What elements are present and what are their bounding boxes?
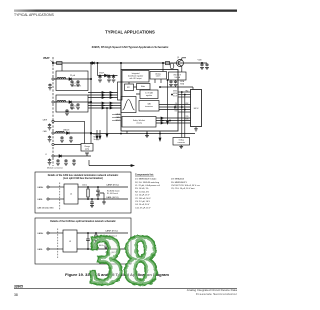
diode D1 (69, 78, 72, 81)
node CANH (37, 186, 44, 189)
terminal CANH (47, 186, 49, 188)
wire MCU spi 1 (178, 91, 191, 93)
wire VBAT rail (53, 62, 207, 64)
capacitor C20 (90, 199, 94, 206)
ground (48, 140, 52, 142)
capacitor C2 left of connector (48, 84, 51, 87)
wire block links (129, 79, 161, 94)
wire CAN bus 3 (88, 107, 121, 109)
inductor L3 (56, 132, 65, 133)
wire to split cap (96, 240, 106, 242)
block mode (137, 84, 151, 90)
charge pump box (81, 144, 93, 152)
watermark page number (89, 223, 159, 300)
connector pin 4 (52, 132, 54, 134)
node CANH (37, 232, 44, 235)
MCU block (191, 90, 202, 127)
svg-text:CANH: CANH (37, 186, 44, 189)
svg-text:C2: 100 nF, 50 V: C2: 100 nF, 50 V (135, 198, 151, 200)
junction dots near MCU (169, 91, 185, 121)
svg-text:L1: 22 µH, 4.0 A power coil: L1: 22 µH, 4.0 A power coil (135, 184, 160, 187)
wire supply bus (90, 63, 92, 144)
pin label (42, 118, 47, 121)
svg-text:Components list:: Components list: (135, 174, 154, 177)
wire choke to ECU CANL (78, 198, 128, 200)
box supply filter 1 (56, 71, 88, 91)
svg-text:120 Ω: 120 Ω (82, 185, 87, 187)
diode D2 (69, 101, 72, 104)
capacitor C8 (64, 159, 67, 162)
running header bar (14, 10, 237, 12)
svg-text:C11: 47 µF, 16 V: C11: 47 µF, 16 V (135, 207, 151, 209)
ground stub (146, 134, 148, 136)
note RL term (107, 191, 120, 195)
svg-text:MOSI: MOSI (173, 93, 177, 95)
wire CANH to choke (49, 186, 64, 188)
split resistor R4 (95, 235, 97, 241)
shunt resistor (170, 63, 174, 69)
capacitor C1b (70, 80, 73, 83)
svg-text:Details of the CAN bus standar: Details of the CAN bus standard terminat… (48, 174, 119, 177)
ground (48, 128, 52, 130)
wire base (174, 62, 176, 64)
pin labels SPI (173, 90, 178, 112)
ECU boundary dashed (59, 183, 61, 211)
ground (48, 163, 52, 165)
wire mid node (98, 193, 104, 202)
wire IC ground drops (127, 131, 160, 134)
svg-text:D3: MRA4003: D3: MRA4003 (171, 178, 185, 181)
node VSUP (99, 73, 105, 75)
value 1N4148 (63, 130, 69, 132)
wire VSUP branch (98, 63, 118, 76)
node CAN shield GND (37, 207, 54, 210)
debug connector box (173, 138, 190, 146)
node VBAT (43, 57, 53, 62)
svg-text:MBRS340T3: MBRS340T3 (72, 86, 81, 88)
connector pin 1 (52, 78, 54, 80)
sense resistor (166, 62, 170, 65)
fuse F1 on rail (57, 62, 63, 65)
common-mode choke L4 (64, 184, 78, 204)
svg-text:connector: connector (177, 141, 185, 144)
pin label (45, 154, 47, 156)
node CANH ECU (105, 230, 118, 233)
junction dots (87, 232, 88, 249)
block SPI (125, 84, 134, 91)
svg-text:C9, C10: 10 µF, 16 V tant.: C9, C10: 10 µF, 16 V tant. (171, 187, 195, 190)
ground (65, 113, 69, 115)
ground (112, 80, 116, 82)
svg-text:with LDO output: with LDO output (129, 77, 142, 80)
wire CANL to choke (49, 198, 64, 200)
wire MCU rxd (156, 120, 191, 122)
wire CAN stub to detail (89, 160, 131, 166)
terminal CANL (47, 198, 49, 200)
arrows to MCU (161, 117, 163, 119)
ground (180, 145, 182, 147)
block CAN transceiver (139, 101, 159, 112)
svg-text:22 µH: 22 µH (70, 75, 76, 77)
capacitor C19 left of connector (48, 159, 51, 162)
svg-text:C3: 2.2 µF, 16 V: C3: 2.2 µF, 16 V (135, 201, 151, 203)
capacitor C13 (104, 241, 107, 244)
block regulator (122, 71, 149, 83)
svg-text:VDD 5.0 V: VDD 5.0 V (173, 74, 181, 76)
junction dots (95, 232, 96, 249)
pin header block (118, 82, 123, 100)
block switch (150, 72, 167, 80)
wire MCU io 1 (159, 104, 191, 106)
svg-text:1N4148: 1N4148 (63, 130, 69, 132)
resistor R3 120 ohm (87, 189, 89, 197)
value VSUP2 (70, 106, 77, 111)
svg-text:VDD: VDD (198, 60, 203, 62)
capacitor C9 (72, 159, 75, 162)
node CANL ECU (105, 251, 118, 254)
svg-text:D2 C3 C4: D2 C3 C4 (70, 106, 77, 108)
svg-text:R1: 10 kΩ, 1%: R1: 10 kΩ, 1% (135, 188, 149, 190)
capacitor C14 (98, 76, 101, 79)
connector pin 2 (52, 101, 54, 103)
svg-text:(non split CAN bus line termin: (non split CAN bus line termination) (63, 177, 103, 180)
ground (70, 84, 74, 86)
wire pin2 (54, 101, 91, 103)
svg-text:CANL: CANL (37, 248, 44, 251)
note split (106, 236, 117, 238)
ground (56, 163, 60, 165)
decoupling caps above MCU (169, 80, 172, 83)
svg-text:D1 C1 C2: D1 C1 C2 (72, 83, 79, 85)
detail box A frame (35, 172, 131, 213)
node VDD (198, 60, 203, 62)
svg-text:VSUP: VSUP (99, 73, 105, 75)
wire SPI bus 1 (88, 92, 118, 94)
capacitor C21 (86, 233, 90, 249)
module connector label (47, 167, 63, 170)
capacitor C15 (107, 76, 110, 79)
inductor L1 (57, 78, 66, 79)
svg-text:MCU: MCU (194, 108, 199, 110)
svg-text:38: 38 (89, 223, 159, 300)
block CAN 5V regulator (140, 90, 158, 99)
transistor Q1 label (177, 57, 179, 59)
terminal CANL (47, 248, 49, 250)
wire debug drop 1 (181, 92, 183, 138)
wire pin1 to box (54, 78, 91, 80)
ground (98, 80, 102, 82)
ground (76, 107, 80, 109)
wire collector up (182, 58, 186, 72)
diode D4 (67, 132, 70, 135)
junction dots bus (90, 78, 91, 134)
connector pin 3 (52, 120, 54, 122)
value VSUP1 (72, 83, 81, 88)
capacitor C16 (112, 76, 115, 79)
svg-text:SCLK: SCLK (173, 95, 177, 97)
node CANL ECU (106, 196, 119, 199)
svg-text:C5/C6/C7/C8: 100 nF, 50 V cer.: C5/C6/C7/C8: 100 nF, 50 V cer. (171, 184, 201, 187)
wire debug drop 2 (184, 95, 186, 138)
diode D6 (105, 74, 108, 77)
svg-text:CANH (ECU): CANH (ECU) (106, 184, 119, 187)
svg-text:CAN (Shield) GND: CAN (Shield) GND (37, 207, 54, 210)
node CANL (37, 198, 44, 201)
svg-text:C4: 10 nF, 50 V: C4: 10 nF, 50 V (135, 204, 150, 206)
capacitor C18 left of connector (48, 136, 51, 139)
capacitor C6 (69, 136, 72, 139)
capacitor C1 (76, 80, 79, 83)
wire pin6 (54, 155, 91, 157)
svg-text:Supply: Supply (94, 139, 100, 141)
wire CANL to choke (49, 248, 63, 250)
capacitor C13 (96, 193, 100, 199)
ground (69, 140, 73, 142)
connector pin 6 (52, 155, 54, 157)
ground rail (91, 133, 195, 135)
capacitor C3 (76, 103, 79, 106)
terminal CANH (47, 232, 49, 234)
arrows CAN bus (102, 102, 104, 104)
svg-text:pump: pump (85, 148, 89, 150)
wire choke to ECU CANH (77, 232, 128, 234)
wire MCU spi 2 (178, 94, 191, 96)
ground (205, 68, 209, 70)
ground (90, 206, 94, 208)
ground (104, 247, 108, 249)
wire pin5 (54, 144, 81, 146)
capacitor C17 left of connector (48, 124, 51, 127)
svg-text:RL, 60 Ω each: RL, 60 Ω each (107, 193, 118, 195)
wire MCU io 4 (178, 111, 191, 113)
pin labels MCU side (186, 89, 190, 120)
pin labels CANH CANL (115, 113, 120, 122)
IC 33905 outline (121, 70, 178, 132)
ground (48, 88, 52, 90)
svg-text:Module connector: Module connector (47, 167, 63, 170)
svg-text:CANL (ECU): CANL (ECU) (106, 196, 119, 199)
svg-text:IO0: IO0 (175, 110, 178, 112)
junction dots (87, 186, 98, 199)
wire MCU io 2 (159, 106, 191, 108)
junction dots VSUP (97, 62, 114, 76)
diode D5 (59, 155, 62, 158)
wire CAN bus 1 (88, 102, 121, 104)
wire MCU io 3 (159, 109, 191, 111)
capacitor C9 (200, 63, 203, 66)
svg-text:D5: MBRS340T3: D5: MBRS340T3 (171, 182, 188, 184)
svg-text:33905, D5 High Speed CAN Typic: 33905, D5 High Speed CAN Typical Applica… (92, 45, 169, 49)
node CANH ECU (106, 184, 119, 187)
transistor Q1 (177, 60, 184, 67)
capacitor C4 (65, 109, 68, 112)
wire MCU txd (156, 117, 191, 119)
wire SPI bus 3 (88, 97, 118, 99)
wire pin4 (54, 132, 91, 134)
svg-text:TYPICAL APPLICATIONS: TYPICAL APPLICATIONS (14, 13, 54, 17)
svg-text:C1: 10 µF, 25 V: C1: 10 µF, 25 V (135, 195, 150, 197)
ground (107, 80, 111, 82)
node CANL (37, 248, 44, 251)
wire sense drop (106, 108, 108, 134)
wire pin3 long (54, 121, 84, 143)
svg-text:33905: 33905 (14, 284, 23, 288)
ground (102, 202, 106, 204)
svg-text:CANH: CANH (37, 232, 44, 235)
wire internal supply drop (167, 80, 169, 121)
wire rail drop to IC (121, 63, 163, 72)
ground (200, 68, 204, 70)
junction on VBAT rail (52, 62, 202, 63)
svg-text:Mode: Mode (141, 86, 145, 88)
wire connector boundary (dashed) (52, 57, 54, 166)
box supply filter 2 (56, 95, 88, 112)
junction dots ground rail (120, 133, 160, 134)
block output filter (169, 72, 187, 80)
node External Module Supply (94, 133, 102, 141)
svg-text:D2, D4: 1N4148 switching: D2, D4: 1N4148 switching (135, 181, 160, 184)
svg-text:Freescale Semiconductor: Freescale Semiconductor (196, 292, 237, 296)
wire MCU int (156, 122, 191, 124)
ECU boundary dashed (57, 229, 59, 259)
arrows SPI bus (102, 92, 104, 94)
capacitor C7 (56, 159, 59, 162)
ground (64, 163, 68, 165)
svg-text:D1: MBRS340T3 diode: D1: MBRS340T3 diode (135, 179, 157, 181)
capacitor C12 (96, 187, 100, 193)
capacitor C10 (205, 63, 208, 66)
page background (0, 0, 240, 310)
block wave shaper (121, 97, 136, 113)
wire VDD to MCU (160, 87, 193, 90)
split resistor R5 (95, 242, 97, 248)
svg-text:100 nF: 100 nF (70, 108, 75, 110)
capacitor C5 (60, 136, 63, 139)
wire CAN bus 2 (88, 105, 121, 107)
wire rail into filter (61, 64, 63, 71)
ground (72, 163, 76, 165)
ground (60, 140, 64, 142)
detail box B frame (35, 218, 131, 264)
inductor L2 (57, 101, 66, 102)
diode D3 on rail (92, 62, 95, 65)
wire SPI bus 2 (88, 94, 118, 96)
arrow down (159, 134, 161, 139)
wire choke to ECU CANL (77, 248, 128, 250)
capacitor C3b (70, 103, 73, 106)
ground (70, 107, 74, 109)
svg-text:CANL: CANL (37, 198, 44, 201)
pin label (43, 130, 47, 133)
block fail-safe (122, 117, 156, 128)
wire choke to ECU CANH (78, 186, 128, 188)
svg-text:VBAT: VBAT (43, 57, 50, 60)
svg-text:R2: 1.0 kΩ, 5%: R2: 1.0 kΩ, 5% (135, 191, 149, 193)
value 22uH (70, 75, 76, 77)
ground MCU (195, 127, 197, 129)
wire MCU spi 3 (178, 96, 191, 98)
value 120 ohm (82, 185, 87, 187)
value 60 ohm (99, 237, 107, 247)
svg-text:38: 38 (14, 293, 18, 297)
junction dot (91, 198, 92, 199)
ground (85, 153, 89, 155)
common-mode choke L5 (63, 230, 77, 252)
svg-text:TYPICAL APPLICATIONS: TYPICAL APPLICATIONS (105, 30, 155, 35)
connector pin 5 (52, 143, 54, 145)
ground (76, 84, 80, 86)
svg-text:Q1: Q1 (177, 57, 179, 59)
wire CANH to choke (49, 232, 63, 234)
wire arrows to module supply (97, 130, 100, 136)
